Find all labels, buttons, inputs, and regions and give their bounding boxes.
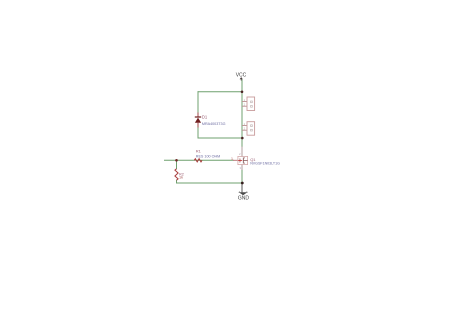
svg-text:1k: 1k bbox=[179, 176, 183, 180]
svg-text:MRA4003T3G: MRA4003T3G bbox=[202, 122, 226, 126]
svg-text:NVGSF1N03LT1G: NVGSF1N03LT1G bbox=[250, 161, 280, 165]
svg-text:D1: D1 bbox=[202, 115, 208, 120]
svg-text:RES 100 OHM: RES 100 OHM bbox=[196, 154, 220, 158]
svg-text:1: 1 bbox=[231, 157, 233, 161]
svg-text:GND: GND bbox=[238, 195, 250, 201]
svg-text:R1: R1 bbox=[196, 149, 202, 154]
